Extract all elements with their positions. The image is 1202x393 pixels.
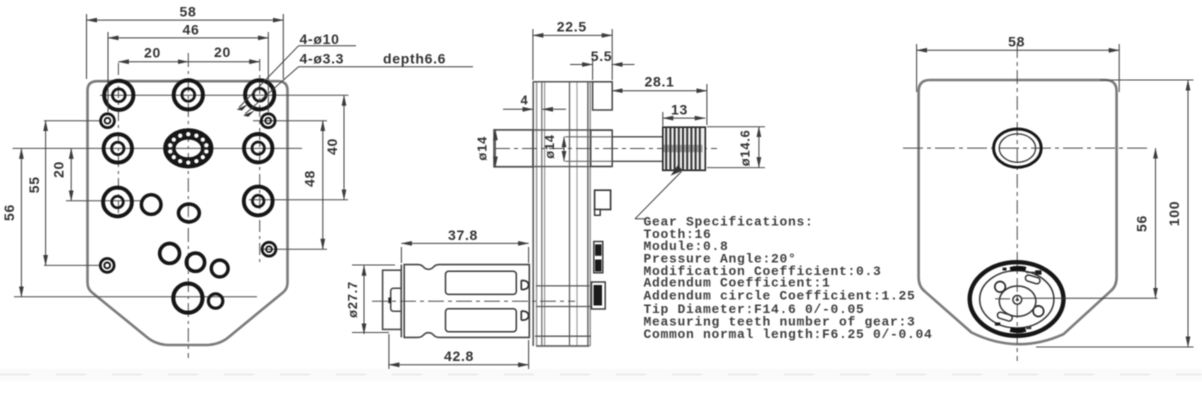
svg-text:4-ø3.3: 4-ø3.3	[300, 50, 345, 66]
cap ring2	[980, 271, 1054, 328]
cluster circle c	[211, 260, 228, 277]
hole row4 right	[244, 187, 273, 216]
cap slot lower-left	[997, 311, 1013, 321]
cap top black bar	[1010, 268, 1026, 269]
bottom big circle	[173, 284, 202, 313]
svg-text:13: 13	[671, 102, 688, 118]
small hole row2 right	[261, 114, 275, 128]
motor cap outer	[970, 262, 1064, 336]
dim 4	[503, 108, 533, 110]
bottom small circle	[208, 294, 222, 308]
dim o27.7	[363, 265, 365, 334]
front plate back edge	[541, 82, 543, 346]
svg-text:20: 20	[51, 161, 67, 178]
dim o14 hub	[563, 137, 565, 162]
hub bore lines	[565, 136, 612, 138]
motor brush housing	[391, 288, 402, 311]
plate outline	[88, 81, 288, 345]
motor label sticker bottom	[446, 309, 517, 332]
dim 42.8	[389, 364, 529, 366]
hole top-left	[104, 81, 133, 110]
horizontal centerline shaft	[903, 147, 1150, 149]
D tab bottom	[521, 311, 528, 320]
svg-text:Common normal length:F6.25 0/-: Common normal length:F6.25 0/-0.04	[644, 327, 933, 342]
small circle beside row4 left	[141, 195, 161, 215]
dim 58	[917, 49, 1120, 51]
shaft	[612, 136, 663, 138]
dim 58	[87, 19, 284, 21]
dim 48 vertical	[322, 121, 324, 250]
svg-text:20: 20	[214, 44, 231, 60]
svg-text:48: 48	[302, 170, 318, 187]
svg-text:56: 56	[1134, 215, 1150, 232]
svg-text:55: 55	[26, 176, 42, 193]
top rear block 5.5	[593, 82, 613, 110]
small hole y265 left	[100, 259, 114, 273]
center oval row4	[179, 204, 200, 222]
terminal tab 2	[594, 242, 603, 273]
output hub	[591, 130, 613, 166]
cluster circle a	[160, 244, 180, 264]
gear pinion	[663, 127, 706, 170]
cluster circle b	[186, 253, 204, 271]
case top edge	[533, 81, 593, 83]
dim 37.8	[401, 242, 528, 244]
shaft hole ellipse	[994, 129, 1042, 167]
gearbox front face	[532, 82, 534, 346]
svg-text:37.8: 37.8	[448, 227, 478, 243]
dim 22.5	[533, 34, 612, 36]
bottom pocket lines	[536, 285, 589, 287]
cap center line right	[1022, 297, 1158, 299]
hole row3 left	[104, 134, 132, 162]
body outline	[919, 80, 1117, 344]
dim 20 left	[118, 61, 188, 63]
centerline vertical main	[187, 53, 189, 358]
row centerlines	[100, 94, 278, 96]
small hole y249 right	[262, 242, 276, 256]
bearing gear center	[165, 131, 211, 167]
motor joint lines	[400, 265, 402, 338]
dim 20 right	[188, 61, 259, 63]
motor body	[404, 265, 529, 338]
faint scan band	[0, 369, 1202, 381]
hole top-center	[174, 80, 203, 109]
motor label sticker top	[446, 271, 517, 294]
svg-text:58: 58	[180, 4, 197, 20]
cap hole lower-right	[1033, 306, 1044, 317]
dim 56	[1155, 148, 1157, 298]
svg-text:22.5: 22.5	[557, 19, 587, 35]
vertical centerline	[1016, 44, 1018, 361]
case back edge	[587, 82, 589, 346]
terminal tab 3	[592, 282, 606, 309]
cap slot upper-right	[1025, 274, 1041, 284]
boss/hub through lines	[494, 129, 612, 131]
svg-text:ø14: ø14	[475, 136, 490, 161]
dim 40 vertical	[343, 95, 345, 200]
shaft centerline	[495, 148, 717, 150]
small hole row2 left	[101, 114, 115, 128]
svg-text:depth6.6: depth6.6	[383, 50, 446, 66]
svg-text:4: 4	[521, 93, 529, 108]
leader to gear spec	[635, 172, 682, 219]
dim 46	[108, 37, 268, 39]
cap ring3	[999, 286, 1036, 316]
svg-text:42.8: 42.8	[444, 348, 474, 364]
svg-text:ø14: ø14	[542, 134, 557, 159]
dim 28.1	[612, 90, 707, 92]
plate layer line	[544, 82, 546, 346]
dim 20 vertical	[70, 148, 72, 200]
D tab top	[521, 280, 528, 289]
dim o14.6	[758, 127, 760, 168]
terminal tab 1	[595, 190, 611, 215]
svg-text:5.5: 5.5	[591, 48, 613, 64]
dim 55 vertical	[45, 121, 47, 266]
mid case line	[569, 82, 571, 346]
svg-text:56: 56	[1, 204, 17, 221]
svg-text:ø27.7: ø27.7	[345, 281, 360, 318]
cap bottom black bar	[1010, 329, 1025, 330]
hole row4 left	[103, 188, 132, 217]
svg-text:4-ø10: 4-ø10	[300, 31, 340, 47]
cap center hole	[1013, 295, 1022, 304]
dim 100	[1187, 80, 1189, 347]
svg-text:40: 40	[324, 138, 340, 155]
dim 13	[663, 117, 705, 119]
svg-text:ø14.6: ø14.6	[738, 130, 753, 167]
svg-text:46: 46	[183, 22, 200, 38]
dim o14 boss	[494, 130, 496, 167]
svg-text:58: 58	[1008, 34, 1025, 50]
hole top-right	[245, 80, 274, 109]
motor cap	[383, 270, 402, 329]
motor centerline	[372, 300, 575, 302]
svg-text:28.1: 28.1	[644, 74, 674, 90]
cap hole upper-left	[995, 282, 1006, 293]
column centerlines	[117, 63, 119, 216]
svg-text:100: 100	[1166, 201, 1182, 226]
dim 56 vertical	[20, 148, 22, 296]
hole row3 right	[244, 134, 272, 162]
dim 5.5	[570, 64, 593, 66]
svg-text:20: 20	[144, 45, 161, 61]
left boss o14	[494, 130, 533, 167]
